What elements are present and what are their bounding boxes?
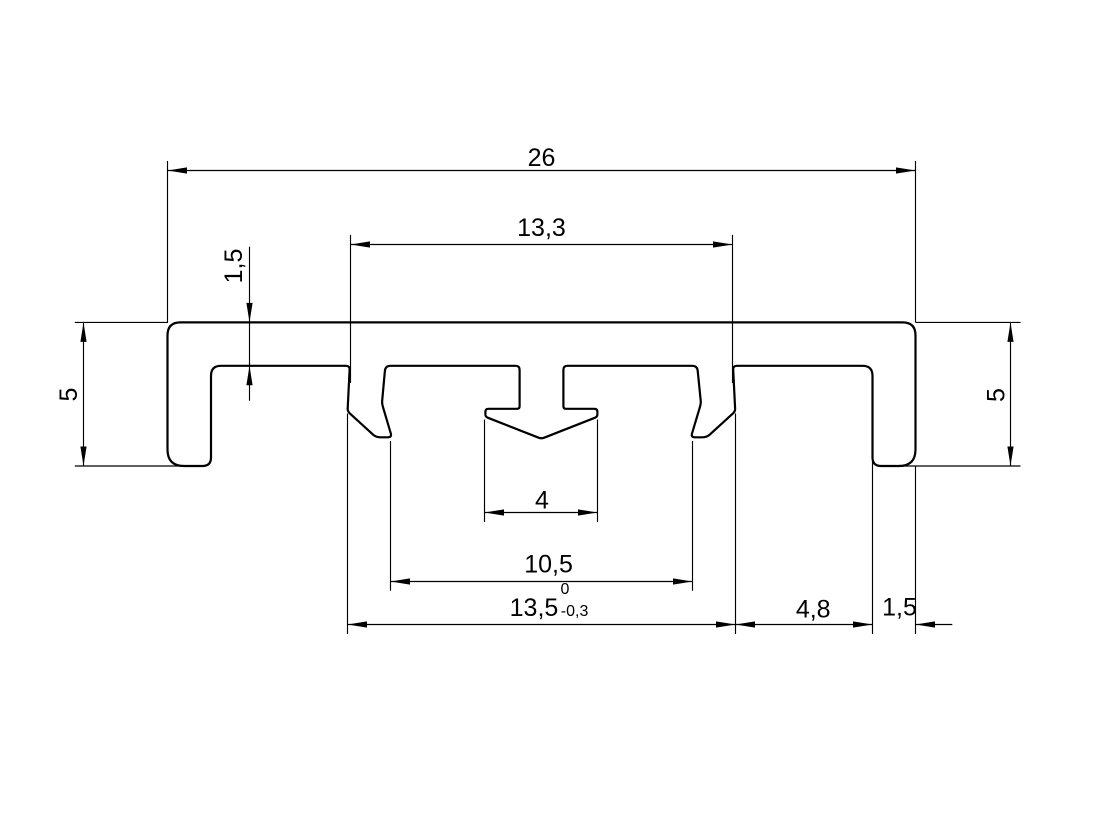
extension line right vertical for 13,5 (735, 414, 737, 635)
extension line vertical for 4,8 at leg inner (872, 461, 874, 634)
dimension 1,5 plate lower arrow (246, 366, 252, 386)
extension line left vertical for 10,5 (390, 441, 392, 591)
svg-text:1,5: 1,5 (220, 249, 248, 284)
extension line vertical at right outer for 1,5 (915, 466, 917, 634)
svg-text:-0,3: -0,3 (561, 603, 589, 620)
dimension 5 left top arrow (80, 322, 86, 342)
dimension 26 line (168, 170, 916, 172)
dimension 13,3 line (351, 244, 733, 246)
dimension 5 right top arrow (1007, 322, 1013, 342)
dimension 13,5 right arrow (716, 621, 736, 627)
svg-text:0: 0 (561, 581, 570, 598)
svg-text:5: 5 (55, 388, 83, 402)
dimension 4 left arrow (485, 509, 505, 515)
extension line top-left horizontal (75, 321, 168, 323)
dimension 26 left arrow (168, 167, 188, 173)
dimension 1,5 leg outside arrow (916, 621, 936, 627)
dimension 1,5 plate thickness vertical line (249, 247, 251, 401)
dimension 4,8 line (736, 624, 873, 626)
extension line right vertical for 4 (597, 420, 599, 523)
dimension 5 left line (83, 322, 85, 466)
svg-text:4,8: 4,8 (796, 595, 831, 623)
extension line right vertical for 10,5 (692, 441, 694, 591)
extension line left vertical for 4 (484, 420, 486, 523)
svg-text:26: 26 (528, 144, 556, 172)
dimension 4,8 left arrow (736, 621, 756, 627)
dimension 13,5 left arrow (348, 621, 368, 627)
dimension 13,5 line (348, 624, 736, 626)
dimension 26 right arrow (896, 167, 916, 173)
svg-text:5: 5 (982, 388, 1010, 402)
dimension 10,5 right arrow (673, 578, 693, 584)
dimension 1,5 plate upper arrow (246, 303, 252, 323)
dimension 5 right bottom arrow (1007, 447, 1013, 467)
dimension 10,5 left arrow (391, 578, 411, 584)
extension line bottom-left horizontal (75, 465, 185, 467)
dimension 4 line (485, 512, 598, 514)
dimension 5 left bottom arrow (80, 447, 86, 467)
svg-text:4: 4 (535, 486, 549, 514)
dimension 4,8 right arrow (853, 621, 873, 627)
dimension 1,5 leg tail line (916, 624, 953, 626)
extension line bottom-right horizontal (898, 465, 1021, 467)
svg-text:13,3: 13,3 (517, 214, 566, 242)
svg-text:1,5: 1,5 (882, 593, 917, 621)
dimension 4 right arrow (578, 509, 598, 515)
extension line left vertical for 26 (167, 161, 169, 322)
dimension 13,3 right arrow (713, 241, 733, 247)
extension line right vertical for 26 (915, 161, 917, 322)
extension line right vertical for 13,3 (732, 235, 734, 383)
svg-text:13,5: 13,5 (510, 594, 559, 622)
extension line top-right horizontal (916, 321, 1021, 323)
extension line left vertical for 13,5 (347, 414, 349, 635)
dimension 5 right line (1010, 322, 1012, 466)
dimension 10,5 line (391, 581, 693, 583)
extension line left vertical for 13,3 (350, 235, 352, 383)
profile outline (aluminium extrusion cross-section) (168, 322, 916, 466)
svg-text:10,5: 10,5 (524, 551, 573, 579)
dimension 13,3 left arrow (351, 241, 371, 247)
